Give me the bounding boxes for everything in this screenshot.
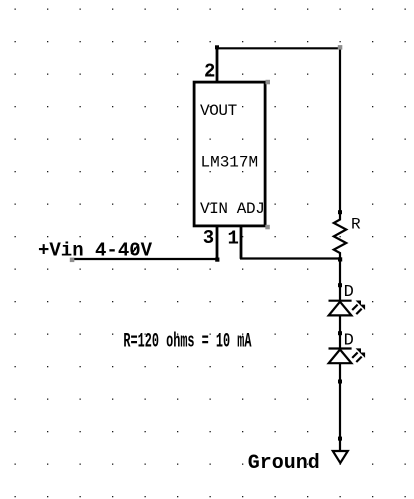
svg-text:R: R xyxy=(351,216,361,234)
svg-text:D: D xyxy=(344,283,354,302)
svg-text:Ground: Ground xyxy=(248,452,320,475)
svg-text:LM317M: LM317M xyxy=(201,154,259,172)
svg-text:3: 3 xyxy=(203,227,214,249)
svg-text:VIN ADJ: VIN ADJ xyxy=(200,200,264,218)
svg-text:D: D xyxy=(344,331,354,350)
svg-text:VOUT: VOUT xyxy=(200,102,237,120)
svg-text:+Vin 4-40V: +Vin 4-40V xyxy=(38,240,153,262)
svg-text:2: 2 xyxy=(204,61,215,83)
svg-text:R=120 ohms = 10 mA: R=120 ohms = 10 mA xyxy=(123,330,251,353)
svg-text:1: 1 xyxy=(228,227,239,249)
